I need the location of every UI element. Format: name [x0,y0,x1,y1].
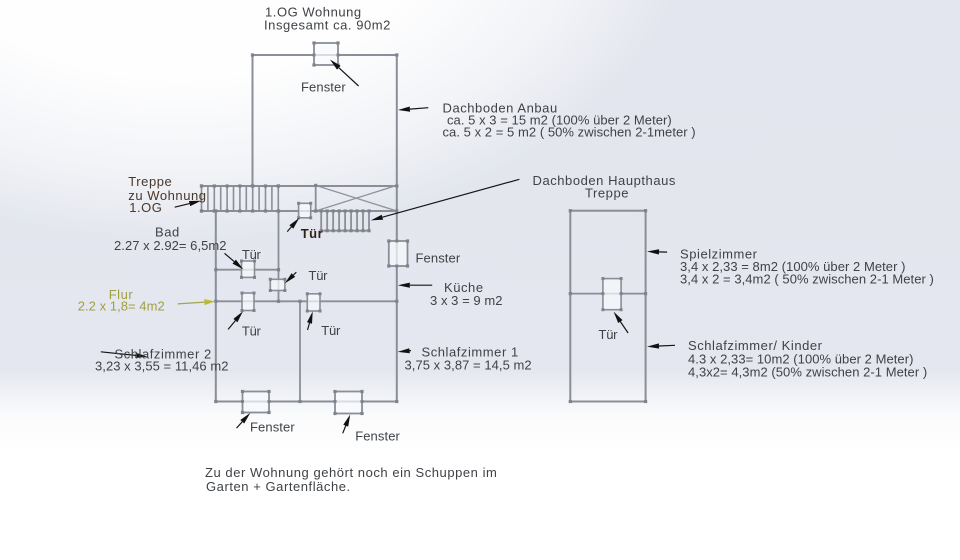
wall: main bottom y401.5 [216,401,397,403]
wall: Anbau left edge [252,55,254,186]
wall: upper rail y186 [202,185,397,187]
label: Tuer D1 [242,247,262,262]
leader arrow: Tuer D3 [228,311,243,329]
stairs: Treppe zu Wohnung (upper run) [200,184,280,212]
leader arrow: Fenster Schlafzimmer 2 [237,413,251,428]
leader arrow: Treppe zu Wohnung [175,201,202,208]
label: Fenster (Anbau) [301,80,346,95]
svg-text:2.2 x 1,8= 4m2: 2.2 x 1,8= 4m2 [78,299,165,314]
label: Fenster (Kueche) [416,250,461,265]
leader arrow: Kueche [398,283,432,288]
label: Dachboden Haupthaus Treppe [533,173,676,201]
node: wall junction dots (Haupthaus) [569,209,648,403]
svg-text:Tür: Tür [599,327,619,342]
svg-text:Tür: Tür [301,226,324,241]
svg-text:3 x 3 = 9 m2: 3 x 3 = 9 m2 [430,293,503,308]
wall: Haupthaus middle y293.6 [570,293,645,295]
leader arrow: Schlafzimmer 2 [101,352,148,358]
wall: Anbau top edge [253,54,397,56]
wall: main right edge [396,55,398,402]
svg-text:Treppe: Treppe [585,186,629,201]
svg-text:3,4 x 2 = 3,4m2 ( 50% zwischen: 3,4 x 2 = 3,4m2 ( 50% zwischen 2-1 Meter… [680,272,934,287]
leader arrow: Spielzimmer [647,249,667,254]
svg-text:3,23 x 3,55 = 11,46 m2: 3,23 x 3,55 = 11,46 m2 [95,359,228,374]
window: Fenster Schlafzimmer 2 bottom [241,390,271,414]
label: Tuer D3 [242,324,262,339]
leader arrow: Schlafzimmer Kinder [647,343,675,348]
svg-text:4,3x2= 4,3m2 (50% zwischen 2-1: 4,3x2= 4,3m2 (50% zwischen 2-1 Meter ) [688,365,927,380]
label: Tuer D2 [309,268,329,283]
svg-text:ca. 5 x 2 = 5 m2 ( 50% zwische: ca. 5 x 2 = 5 m2 ( 50% zwischen 2-1meter… [443,125,696,140]
leader arrow: Tuer D5 [614,312,629,333]
door: Tuer D0 top (bold label) [297,202,312,220]
window: Fenster Anbau top [312,41,339,66]
leader arrow: Flur (yellow) [178,299,216,305]
window: Fenster Schlafzimmer 1 bottom [333,390,363,415]
window: Fenster Kueche right [387,239,409,267]
label: Schlafzimmer 2 block [95,346,228,373]
label: Bad block [114,225,227,253]
svg-text:2.27 x 2.92= 6,5m2: 2.27 x 2.92= 6,5m2 [114,238,227,253]
leader arrow: Schlafzimmer 1 [398,348,411,353]
node: wall junction dots (main building) [200,53,399,403]
label: Kueche block [430,280,503,308]
svg-text:Tür: Tür [309,268,329,283]
wall: bedroom divider x300 [299,301,301,401]
svg-text:Tür: Tür [321,323,341,338]
door: Tuer D1 Bad [240,260,256,279]
leader arrow: Tuer D1 [225,253,244,269]
svg-text:3,75 x 3,87 = 14,5 m2: 3,75 x 3,87 = 14,5 m2 [405,358,532,373]
svg-text:Fenster: Fenster [250,420,295,435]
leader arrow: Tuer D0 [287,218,299,232]
svg-text:Zu der Wohnung gehört noch ein: Zu der Wohnung gehört noch ein Schuppen … [205,465,497,480]
label: Tuer D5 [599,327,619,342]
label: Dachboden Anbau block [443,101,696,140]
wall: corridor y301.3 [216,300,397,302]
door: Tuer D4 corridor right [306,292,322,312]
label: Tuer D0 (bold brown) [301,226,324,241]
wall: Bad bottom y269.7 [216,269,279,271]
svg-text:Fenster: Fenster [301,80,346,95]
leader arrow: Dachboden Haupthaus Treppe [371,179,520,220]
door: Tuer D3 corridor left [241,292,256,313]
door: Tuer D2 Flur vertical wall [269,278,287,292]
wall: Haupthaus outline [570,211,645,402]
leader arrow: Fenster Anbau [330,60,359,87]
leader arrow: Dachboden Anbau [398,107,428,112]
svg-text:1.OG: 1.OG [129,200,162,215]
label: Flur block (olive) [78,287,165,313]
label: Treppe zu Wohnung 1.OG (brown) [128,174,206,215]
door: Tuer D5 Haupthaus [601,277,622,311]
leader arrow: Tuer D2 [285,272,297,283]
label: Tuer D4 [321,323,341,338]
label: Schlafzimmer 1 block [405,345,532,373]
leader arrow: Tuer D4 [307,311,313,330]
svg-text:Tür: Tür [242,324,262,339]
label: Fenster (Schlafzimmer 1) [355,429,400,444]
label: note Schuppen im Garten [205,465,497,494]
svg-text:Fenster: Fenster [355,429,400,444]
wall: mid rail y211 [202,210,397,212]
svg-text:Treppe: Treppe [128,174,172,189]
svg-text:Tür: Tür [242,247,262,262]
svg-text:Fenster: Fenster [416,250,461,265]
label: Fenster (Schlafzimmer 2) [250,420,295,435]
svg-text:Garten + Gartenfläche.: Garten + Gartenfläche. [206,479,351,494]
label: Schlafzimmer Kinder block [688,338,927,380]
wall: main left edge [215,211,217,402]
svg-text:Insgesamt ca. 90m2: Insgesamt ca. 90m2 [264,18,391,33]
label: Spielzimmer block [680,247,934,287]
label: title 1.OG Wohnung / Insgesamt ca. 90m2 [264,5,391,33]
wall: Bad right x278.5 [278,211,280,301]
cross brace X (attic opening) [314,184,397,213]
stairs: Haupthaus Treppe (lower run) [320,209,371,232]
leader arrow: Fenster Schlafzimmer 1 [343,415,351,434]
